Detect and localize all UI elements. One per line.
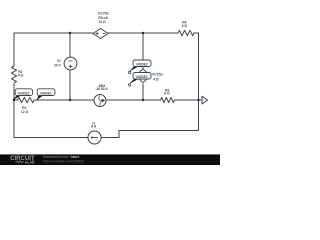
svg-text:V1: V1 — [57, 59, 61, 63]
svg-text:4 Ω: 4 Ω — [18, 74, 24, 78]
svg-text:NODE2: NODE2 — [136, 62, 148, 66]
svg-text:6 A: 6 A — [91, 124, 97, 128]
svg-text:VCCS1: VCCS1 — [152, 73, 163, 77]
svg-text:http://circuitlab.com/c/59fq3: http://circuitlab.com/c/59fq3 — [43, 160, 84, 164]
svg-text:NODE2: NODE2 — [18, 91, 30, 95]
svg-text:CCVS1: CCVS1 — [98, 12, 109, 16]
svg-text:NODE1: NODE1 — [136, 75, 148, 79]
svg-text:8 Ω: 8 Ω — [164, 92, 170, 96]
svg-text:NODE1: NODE1 — [40, 91, 52, 95]
svg-text:4 Ω: 4 Ω — [153, 77, 159, 81]
svg-text:▸LAB: ▸LAB — [24, 159, 34, 164]
svg-text:20 V: 20 V — [54, 63, 62, 67]
svg-text:12 Ω: 12 Ω — [21, 110, 29, 114]
svg-text:12 Ω: 12 Ω — [98, 20, 106, 24]
svg-text:-16.00 A: -16.00 A — [95, 87, 108, 91]
svg-text:6 Ω: 6 Ω — [182, 24, 188, 28]
